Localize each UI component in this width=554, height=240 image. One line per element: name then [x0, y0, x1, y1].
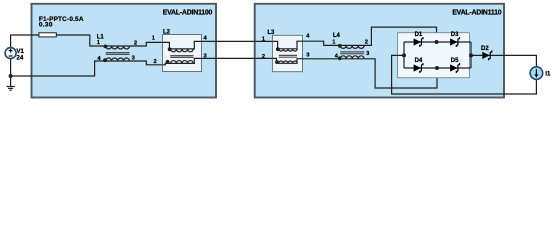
node V1 minus / ground junction	[9, 74, 13, 78]
wire L2 pin 3 to L3 pin 2	[202, 57, 273, 59]
svg-text:D2: D2	[481, 46, 489, 52]
svg-text:2: 2	[365, 39, 368, 45]
polarity dot L1 pin 1	[104, 45, 108, 49]
wire L2 pin 4 to L3 pin 1	[202, 40, 273, 42]
wire L3 pin 3 to L4 pin 4 and L4 pin 3 to bridge AC node B	[303, 59, 438, 88]
wire bridge left vertical (DC minus)	[403, 42, 405, 68]
svg-text:2: 2	[154, 59, 157, 65]
polarity dot L2 pin 2	[166, 60, 170, 64]
choke L4 windings	[340, 45, 364, 58]
choke L4 core	[340, 52, 364, 54]
polarity dot L3 pin 2	[275, 60, 279, 64]
choke L1 core	[106, 53, 130, 55]
svg-text:D5: D5	[451, 58, 459, 64]
svg-text:2: 2	[262, 54, 265, 60]
wire bridge bottom row	[404, 67, 471, 69]
node bridge AC B (D4 cathode / D5 anode)	[435, 66, 439, 70]
svg-text:L3: L3	[267, 30, 275, 36]
svg-text:0.30: 0.30	[39, 22, 53, 29]
polarity dot L3 pin 1	[276, 47, 280, 51]
svg-text:D4: D4	[415, 58, 423, 64]
svg-text:EVAL-ADIN1110: EVAL-ADIN1110	[452, 10, 501, 17]
choke L1 windings	[106, 46, 130, 61]
diode D4	[414, 63, 423, 73]
svg-text:24: 24	[16, 54, 23, 61]
wire L3 pin 4 to L4 pin 1 and on to bridge AC node A	[303, 27, 437, 45]
node bridge AC A (D1 cathode / D3 anode)	[435, 40, 439, 44]
rectifier bridge box	[398, 33, 470, 78]
svg-text:2: 2	[134, 40, 137, 46]
transformer L2 core	[170, 56, 193, 58]
polarity dot L2 pin 1	[168, 47, 172, 51]
svg-text:D1: D1	[415, 32, 423, 38]
fuse F1	[39, 33, 56, 37]
wire bridge top row	[404, 41, 471, 43]
transformer L2 primary winding	[163, 41, 202, 51]
transformer L3 secondary winding	[272, 58, 302, 63]
node bridge DC plus	[469, 53, 473, 57]
svg-text:L4: L4	[333, 33, 341, 39]
wire fuse F1 to L1 pin 1 and on to L2 pin 1	[56, 35, 162, 46]
wire DC plus through D2 to I1	[471, 55, 536, 66]
polarity dot L4 pin 4	[338, 56, 342, 60]
diode D2	[482, 50, 492, 60]
transformer L3 primary winding	[272, 41, 302, 51]
current source I1	[530, 67, 543, 80]
wire ground stem	[10, 76, 12, 86]
diode D1	[414, 37, 423, 47]
ground	[6, 87, 14, 91]
transformer L2 secondary winding	[163, 58, 202, 64]
node bridge DC minus	[402, 53, 406, 57]
svg-text:L2: L2	[163, 29, 171, 35]
board EVAL-ADIN1110	[255, 4, 504, 98]
wire bridge right vertical (DC plus)	[470, 42, 472, 68]
transformer L3 core	[279, 55, 297, 57]
polarity dot L4 pin 1	[338, 44, 342, 48]
diode D5	[450, 63, 459, 73]
svg-text:EVAL-ADIN1100: EVAL-ADIN1100	[163, 10, 213, 17]
board EVAL-ADIN1100	[32, 4, 217, 98]
wire V1 plus to fuse F1	[11, 35, 39, 48]
transformer L3 box	[272, 35, 302, 71]
wire DC minus to bottom rail and I1	[392, 55, 537, 94]
svg-text:I1: I1	[545, 71, 551, 78]
polarity dot L1 pin 4	[103, 58, 107, 62]
voltage source V1	[5, 48, 16, 59]
svg-text:D3: D3	[451, 32, 459, 38]
diode D3	[450, 37, 459, 47]
wire V1 minus to L1 pin 4 and on to L2 pin 2	[11, 58, 163, 76]
transformer L2 box	[163, 35, 202, 72]
